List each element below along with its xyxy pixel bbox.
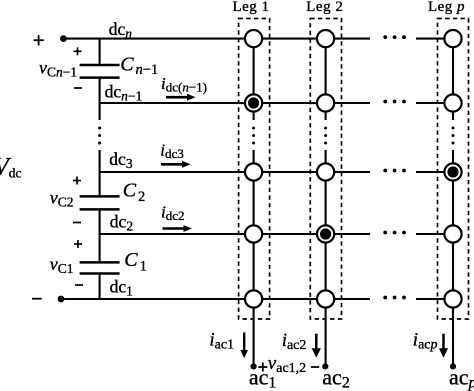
svg-text:dcn: dcn: [109, 19, 133, 41]
wire dc-link column (C_2 through dc_2 to C_1): [99, 210, 101, 261]
symbol + (C_1): [74, 240, 82, 248]
svg-text:C1: C1: [124, 249, 147, 275]
switch leg2 dc_3 (open): [317, 163, 334, 180]
ellipsis dc_n-1 row: [383, 100, 406, 104]
symbol + (Vdc positive): [34, 35, 44, 45]
wire dc_1 bus left segment: [61, 298, 370, 300]
wire dc_2 bus right segment: [416, 233, 453, 235]
switch leg1 dc_1 (open): [245, 290, 262, 307]
ellipsis dc_2 row: [383, 231, 406, 235]
switch leg2 dc_2 (closed): [317, 225, 334, 242]
wire dc_n bus left segment: [64, 38, 371, 40]
ellipsis leg p: [452, 127, 455, 145]
wire dc_3 bus left segment: [99, 171, 370, 173]
switch legp dc_1 (open): [444, 290, 461, 307]
ellipsis dc_3 row: [383, 169, 406, 173]
symbol + (C_2): [73, 177, 81, 185]
svg-text:vC1: vC1: [50, 254, 74, 276]
switch leg1 dc_n (open): [245, 30, 262, 47]
symbol + (C_n-1): [74, 47, 82, 55]
symbol - (C_1): [75, 284, 83, 286]
node ac1: [251, 363, 257, 369]
ellipsis leg 1: [252, 127, 255, 145]
leg 2 dashed enclosure: [310, 19, 341, 320]
label + of v_ac1,2: [258, 363, 267, 372]
wire leg p upper: [452, 39, 454, 120]
ellipsis dc_1 row: [383, 296, 406, 300]
arrow i_acp: [439, 334, 448, 358]
svg-text:Leg 2: Leg 2: [306, 0, 343, 15]
wire dc_n-1 bus left segment: [99, 102, 370, 104]
capacitor C_2 bottom plate: [80, 208, 120, 211]
switch leg2 dc_n (open): [317, 30, 334, 47]
switch legp dc_3 (closed): [444, 163, 461, 180]
wire dc_n-1 bus right segment: [416, 102, 453, 104]
node ac2: [322, 363, 328, 369]
wire dc-link column top (dc_n to C_n-1): [99, 39, 101, 64]
wire dc_n bus right segment: [416, 38, 453, 40]
arrow i_dc(n-1): [166, 94, 196, 101]
wire dc_2 bus left segment: [99, 233, 370, 235]
svg-text:vC2: vC2: [50, 188, 74, 210]
wire dc-link column bottom (C_1 to dc_1): [99, 275, 101, 300]
capacitor C_1 bottom plate: [80, 272, 120, 275]
capacitor C_n-1 top plate: [80, 64, 120, 67]
node Vdc negative terminal: [58, 296, 65, 303]
arrow i_dc3: [161, 161, 191, 168]
svg-text:Leg 1: Leg 1: [232, 0, 269, 15]
node Vdc positive terminal: [60, 35, 67, 42]
wire leg 2 lower: [325, 150, 327, 366]
svg-text:iac2: iac2: [282, 330, 307, 353]
svg-text:C2: C2: [123, 180, 146, 206]
switch leg1 dc_3 (open): [245, 163, 262, 180]
capacitor C_n-1 bottom plate: [80, 76, 120, 79]
symbol - (Vdc negative): [32, 298, 42, 300]
leg p dashed enclosure: [438, 19, 469, 320]
wire dc_3 bus right segment: [416, 171, 453, 173]
node acp: [450, 363, 456, 369]
svg-text:dcn−1: dcn−1: [105, 82, 143, 104]
switch leg1 dc_2 (open): [245, 225, 262, 242]
wire dc_1 bus right segment: [416, 298, 453, 300]
svg-text:iacp: iacp: [413, 330, 438, 353]
svg-text:dc1: dc1: [110, 277, 133, 299]
wire dc-link column (C_n-1 through dc_n-1 to ellipsis): [99, 79, 101, 120]
wire leg p lower: [452, 150, 454, 366]
symbol - (C_2): [73, 222, 81, 224]
svg-text:Cn−1: Cn−1: [120, 53, 158, 78]
svg-text:acp: acp: [449, 364, 474, 391]
svg-text:ac2: ac2: [322, 364, 350, 391]
ellipsis leg 2: [324, 127, 327, 145]
switch legp dc_2 (open): [444, 225, 461, 242]
ellipsis dc_n row: [383, 35, 406, 39]
arrow i_ac1: [240, 333, 248, 359]
arrow i_ac2: [312, 334, 321, 358]
ellipsis dc-link column: [98, 127, 101, 145]
svg-text:Vdc: Vdc: [0, 154, 22, 181]
svg-text:dc2: dc2: [110, 211, 133, 233]
capacitor C_1 top plate: [80, 261, 120, 264]
symbol - (C_n-1): [74, 87, 82, 89]
svg-text:vCn−1: vCn−1: [39, 58, 77, 80]
switch legp dc_n-1 (open): [444, 94, 461, 111]
svg-text:iac1: iac1: [209, 330, 234, 353]
switch legp dc_n (open): [444, 30, 461, 47]
switch leg2 dc_n-1 (open): [317, 94, 334, 111]
svg-text:idc(n−1): idc(n−1): [161, 74, 207, 95]
label - of v_ac1,2: [311, 366, 319, 368]
svg-text:vac1,2: vac1,2: [268, 353, 306, 376]
wire leg 1 upper: [253, 39, 255, 120]
wire leg 1 lower: [253, 150, 255, 366]
leg 1 dashed enclosure: [239, 19, 270, 320]
svg-text:dc3: dc3: [109, 149, 133, 171]
svg-text:idc2: idc2: [161, 203, 185, 224]
switch leg1 dc_n-1 (closed): [245, 94, 262, 111]
svg-text:idc3: idc3: [160, 141, 184, 162]
wire dc-link column (ellipsis to C_2 via dc_3): [99, 150, 101, 195]
capacitor C_2 top plate: [80, 195, 120, 198]
switch leg2 dc_1 (open): [317, 290, 334, 307]
wire leg 2 upper: [325, 39, 327, 120]
arrow i_dc2: [163, 225, 193, 232]
svg-text:Leg p: Leg p: [428, 0, 465, 15]
